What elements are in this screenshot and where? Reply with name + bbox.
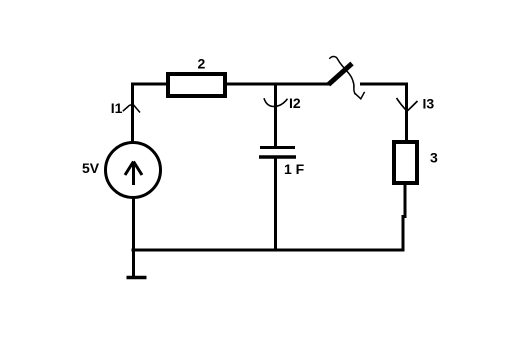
- wire: top horizontal middle segment (resistor to switch): [227, 83, 330, 86]
- current arrow I1 (peak crossing left wire): [123, 105, 140, 113]
- switch S1 squiggle arrowhead: [354, 92, 364, 99]
- wire: top-left vertical segment (node A down to current source): [131, 83, 134, 143]
- ground symbol: [127, 276, 147, 280]
- resistor R1 (value 2): [168, 74, 225, 96]
- capacitor C1 bottom plate: [259, 155, 296, 159]
- capacitor C1 top plate: [260, 146, 295, 149]
- switch S1 actuation squiggle: [329, 56, 355, 94]
- svg-text:2: 2: [198, 56, 206, 72]
- current arrow I3 (v-shape on right wire): [397, 98, 418, 111]
- current source V1 arrow shaft: [132, 162, 135, 185]
- wire: bottom horizontal rail: [132, 249, 405, 252]
- wire: right vertical below R2 to bottom rail (with jog): [403, 183, 405, 251]
- svg-text:1 F: 1 F: [284, 161, 305, 177]
- svg-text:3: 3: [430, 150, 438, 166]
- wire: current source down to bottom rail and ground stub: [132, 198, 135, 277]
- svg-text:5V: 5V: [82, 160, 100, 176]
- resistor R2 (value 3): [394, 142, 417, 183]
- wire: top horizontal right segment (switch to corner): [360, 83, 408, 86]
- wire: capacitor bottom to bottom rail: [274, 158, 277, 251]
- wire: top horizontal left segment: [131, 83, 168, 86]
- wire: right vertical from corner down to resistor R2: [405, 83, 408, 143]
- svg-text:I1: I1: [111, 100, 123, 116]
- switch S1 blade: [329, 64, 353, 85]
- current source V1 circle: [106, 143, 161, 198]
- svg-text:I2: I2: [289, 95, 301, 111]
- svg-text:I3: I3: [423, 96, 435, 112]
- wire: capacitor branch vertical from top rail to C1: [274, 84, 277, 147]
- current source V1 arrow barbs: [125, 162, 142, 176]
- current arrow I2 (u-arc on capacitor wire): [264, 98, 288, 106]
